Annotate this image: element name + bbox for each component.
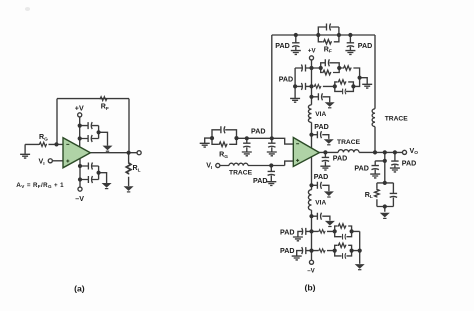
svg-text:(b): (b) (304, 282, 315, 292)
svg-text:PAD: PAD (333, 154, 347, 162)
svg-text:VI: VI (206, 162, 213, 171)
svg-text:TRACE: TRACE (385, 115, 409, 122)
svg-text:VO: VO (410, 147, 419, 156)
svg-text:PAD: PAD (251, 128, 265, 136)
svg-text:RL: RL (133, 164, 141, 173)
svg-text:PAD: PAD (314, 123, 328, 131)
svg-text:PAD: PAD (280, 247, 294, 255)
svg-text:RF: RF (101, 103, 109, 112)
svg-text:PAD: PAD (358, 42, 372, 50)
svg-text:(a): (a) (74, 283, 85, 293)
svg-text:TRACE: TRACE (229, 169, 253, 176)
svg-text:+V: +V (75, 104, 84, 112)
svg-text:PAD: PAD (279, 76, 293, 84)
svg-text:PAD: PAD (275, 42, 289, 50)
svg-text:VIA: VIA (315, 111, 326, 118)
svg-text:PAD: PAD (253, 177, 267, 185)
svg-text:+V: +V (308, 48, 317, 55)
svg-text:RF: RF (324, 45, 332, 54)
svg-text:PAD: PAD (354, 164, 368, 172)
svg-text:–V: –V (75, 195, 84, 203)
svg-text:RG: RG (39, 133, 48, 142)
svg-text:RL: RL (365, 191, 373, 200)
svg-text:PAD: PAD (314, 173, 328, 181)
svg-text:AV = RF/RG + 1: AV = RF/RG + 1 (16, 182, 64, 189)
svg-text:–V: –V (307, 268, 315, 275)
svg-text:RG: RG (219, 151, 228, 160)
svg-text:VIA: VIA (315, 200, 326, 207)
svg-text:VI: VI (39, 158, 46, 167)
svg-text:PAD: PAD (402, 159, 416, 167)
svg-text:PAD: PAD (280, 229, 294, 237)
svg-text:TRACE: TRACE (337, 139, 361, 146)
